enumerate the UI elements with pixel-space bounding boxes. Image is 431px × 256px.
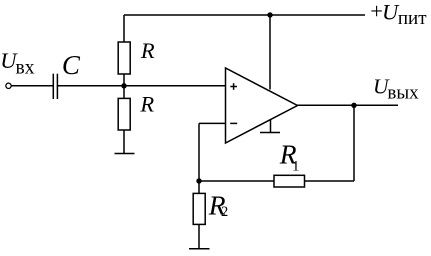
svg-text:вых: вых <box>387 83 419 104</box>
svg-text:пит: пит <box>398 8 427 29</box>
svg-text:вх: вх <box>16 58 35 79</box>
svg-text:2: 2 <box>221 204 228 220</box>
svg-text:C: C <box>62 50 81 80</box>
svg-text:1: 1 <box>292 158 300 174</box>
svg-text:R: R <box>139 91 154 116</box>
svg-text:R: R <box>140 38 155 63</box>
